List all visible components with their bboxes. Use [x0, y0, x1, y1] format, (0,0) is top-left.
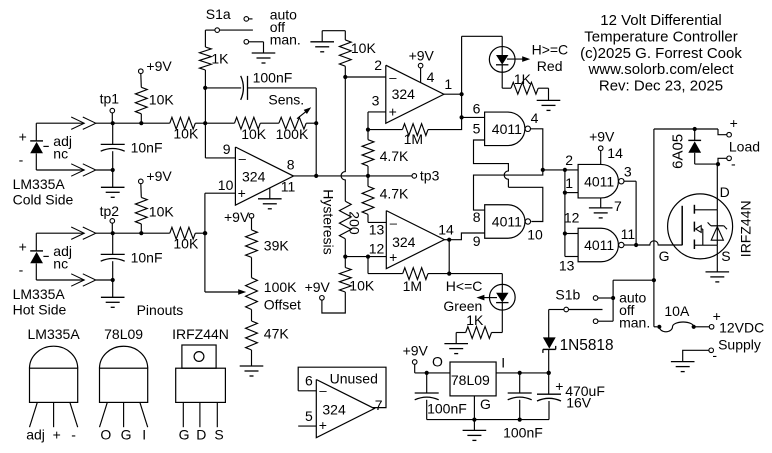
- resistor 10K (feedback): [205, 117, 279, 129]
- junction dot node A: [541, 168, 545, 172]
- chevrons hot bottom: [71, 274, 96, 286]
- svg-text:1M: 1M: [403, 278, 422, 294]
- label Sens.: [268, 92, 304, 108]
- svg-text:1K: 1K: [514, 71, 532, 87]
- svg-text:+9V: +9V: [224, 209, 250, 225]
- label O: [432, 353, 443, 369]
- junction dot out2: [447, 238, 451, 242]
- label 324 (U1d): [322, 401, 346, 417]
- pin label 10: [527, 226, 543, 242]
- label 6A05 vertical: [669, 134, 686, 169]
- svg-text:324: 324: [392, 234, 416, 250]
- op-amp U1d frame: [298, 367, 386, 407]
- svg-text:Load: Load: [729, 139, 760, 155]
- svg-text:7: 7: [375, 397, 383, 413]
- capacitor 100nF (input): [508, 373, 532, 420]
- label G (78L09): [480, 396, 491, 412]
- svg-text:39K: 39K: [264, 237, 290, 253]
- pin label 12: [369, 240, 385, 256]
- svg-text:10nF: 10nF: [131, 140, 163, 156]
- +9V terminal (U1b): [409, 47, 435, 82]
- wire feedback right column: [315, 88, 317, 176]
- label Hot Side: [13, 302, 67, 318]
- svg-text:+9V: +9V: [403, 342, 429, 358]
- pin label 13: [369, 221, 385, 237]
- svg-text:Unused: Unused: [330, 371, 378, 387]
- title line 4: [587, 61, 734, 78]
- label Green: [443, 298, 482, 314]
- wire right column: [653, 129, 655, 327]
- label off (S1a): [270, 19, 285, 35]
- svg-text:2: 2: [565, 152, 573, 168]
- svg-text:10K: 10K: [149, 92, 175, 108]
- svg-text:H<=C: H<=C: [446, 278, 483, 294]
- pin label 6: [473, 100, 481, 116]
- svg-text:8: 8: [473, 209, 481, 225]
- op-amp U2 (324 pins 13/12/14): [386, 211, 444, 269]
- title line 2: [584, 29, 737, 46]
- svg-text:Supply: Supply: [718, 337, 761, 353]
- svg-text:47K: 47K: [264, 325, 290, 341]
- wire drain column: [716, 164, 718, 245]
- ground (U3c pin7): [589, 198, 613, 218]
- +9V terminal (hysteresis): [305, 279, 331, 300]
- svg-text:tp3: tp3: [420, 167, 440, 183]
- plus mark U1a: [238, 185, 246, 201]
- svg-text:10: 10: [527, 226, 543, 242]
- label - (cold): [19, 151, 24, 167]
- label H<=C: [446, 278, 483, 294]
- pin label 3 (U3c): [624, 163, 632, 179]
- wire U1b output: [444, 93, 462, 95]
- svg-text:4.7K: 4.7K: [380, 185, 409, 201]
- svg-text:tp1: tp1: [100, 91, 120, 107]
- wire cold sensor top: [36, 122, 112, 124]
- svg-text:IRFZ44N: IRFZ44N: [172, 326, 229, 342]
- minus mark U1d: [319, 383, 327, 398]
- svg-text:1: 1: [444, 76, 452, 92]
- label 324 (U1b): [392, 86, 416, 102]
- svg-text:LM335A: LM335A: [13, 286, 66, 302]
- pin label 9 (U3b): [473, 233, 481, 249]
- svg-text:-: -: [712, 347, 717, 363]
- svg-text:200: 200: [347, 211, 363, 235]
- svg-text:man.: man.: [270, 31, 301, 47]
- wire top row: [654, 129, 727, 135]
- title line 5: [599, 77, 723, 94]
- pin label 13 (U3d): [559, 258, 575, 274]
- pin 5 stub: [298, 425, 316, 427]
- label 100nF (output): [427, 400, 467, 416]
- svg-text:-: -: [731, 155, 736, 171]
- label 1K (green): [466, 312, 484, 328]
- label man. (S1a): [270, 31, 301, 47]
- junction dot Sens right: [314, 121, 318, 125]
- svg-text:10K: 10K: [173, 236, 199, 252]
- svg-text:tp2: tp2: [100, 203, 120, 219]
- svg-text:I: I: [501, 355, 505, 371]
- capacitor 100nF (feedback): [205, 76, 316, 100]
- svg-text:+: +: [53, 426, 61, 442]
- svg-text:+: +: [389, 249, 397, 265]
- resistor 10K (hysteresis bottom): [322, 257, 351, 313]
- wire to green LED: [449, 274, 502, 285]
- label Supply: [718, 337, 761, 353]
- label 39K: [264, 237, 290, 253]
- label 4011 (U3b): [492, 214, 522, 230]
- label Unused: [330, 371, 378, 387]
- potentiometer 100K Sens.: [279, 107, 316, 129]
- NAND gate U3d (4011 pins 12/13/11): [578, 228, 624, 262]
- svg-text:–: –: [319, 383, 327, 398]
- LM335A sensor (hot side): [30, 233, 49, 280]
- +9V terminal (cold pullup): [139, 58, 173, 74]
- wire hysteresis column (hops output row): [341, 77, 345, 201]
- junction dot pin6 node: [460, 115, 464, 119]
- svg-text:10K: 10K: [241, 126, 267, 142]
- label Hysteresis vertical: [321, 189, 337, 254]
- wire to red LED: [462, 36, 503, 46]
- svg-text:G: G: [121, 426, 132, 442]
- op-amp U1a (324 pins 9/10/8): [235, 147, 293, 205]
- svg-text:+: +: [730, 115, 738, 131]
- svg-text:13: 13: [369, 221, 385, 237]
- arrow (green LED): [476, 295, 497, 301]
- wire pin 13: [368, 221, 386, 223]
- arrow (red LED): [507, 56, 530, 62]
- svg-text:+9V: +9V: [146, 168, 172, 184]
- svg-text:10K: 10K: [173, 126, 199, 142]
- package LM335A (TO-92): [30, 346, 78, 427]
- wire pin10/wiper column: [204, 193, 206, 292]
- pin label 7 (U1d): [375, 397, 383, 413]
- svg-text:100nF: 100nF: [253, 70, 293, 86]
- label 10K (hyst bottom): [349, 277, 375, 293]
- wire gate input column: [564, 170, 566, 257]
- label 1N5818: [560, 337, 614, 354]
- svg-text:+: +: [19, 128, 27, 144]
- svg-text:Sens.: Sens.: [268, 92, 304, 108]
- label tp3: [420, 167, 440, 183]
- svg-text:324: 324: [392, 86, 416, 102]
- wire U3c out column: [624, 181, 636, 245]
- ground (hot sensor): [101, 280, 125, 307]
- pin label 5: [473, 121, 481, 137]
- junction dots output row: [314, 174, 370, 178]
- pin 6 stub: [298, 390, 316, 392]
- svg-text:1M: 1M: [404, 131, 423, 147]
- junction dot out1: [460, 92, 464, 96]
- label Offset: [264, 297, 301, 313]
- svg-text:1N5818: 1N5818: [560, 337, 614, 354]
- svg-text:10K: 10K: [149, 204, 175, 220]
- resistor 1K (green LED): [456, 310, 502, 338]
- svg-text:100nF: 100nF: [427, 400, 467, 416]
- terminal supply -: [709, 347, 718, 363]
- svg-text:14: 14: [438, 221, 454, 237]
- label 78L09: [451, 372, 490, 388]
- svg-text:O: O: [100, 426, 111, 442]
- label 4.7K upper: [380, 148, 409, 164]
- label 12VDC: [719, 319, 764, 335]
- diode D3 6A05: [688, 129, 701, 164]
- LED D2 green: [489, 284, 515, 310]
- junction dot pin2: [343, 75, 347, 79]
- resistor 10K series (cold): [113, 117, 206, 129]
- +9V terminal (U3c): [589, 128, 615, 164]
- junction dots hot row: [111, 231, 208, 282]
- wire supply minus: [683, 350, 709, 361]
- label 10K (feedback): [241, 126, 267, 142]
- resistor 10K pullup (hot): [135, 184, 147, 233]
- testpoint tp2: [110, 219, 115, 234]
- svg-text:78L09: 78L09: [451, 372, 490, 388]
- ground (U1a pin 11): [258, 188, 282, 209]
- pin label 6 (U1d): [305, 372, 313, 388]
- svg-text:+9V: +9V: [589, 128, 615, 144]
- label H>=C: [532, 41, 569, 57]
- svg-text:16V: 16V: [566, 394, 592, 410]
- svg-text:LM335A: LM335A: [13, 176, 66, 192]
- label 200 vertical: [347, 211, 363, 235]
- ground (offset chain): [240, 366, 264, 376]
- svg-text:S: S: [721, 248, 730, 264]
- fuse 10A: [654, 322, 709, 332]
- svg-text:Pinouts: Pinouts: [137, 302, 184, 318]
- svg-text:100nF: 100nF: [503, 425, 543, 441]
- label 10K pullup (hot): [149, 204, 175, 220]
- svg-text:man.: man.: [619, 315, 650, 331]
- svg-text:+: +: [319, 417, 327, 433]
- svg-text:1K: 1K: [466, 312, 484, 328]
- label 10nF (cold): [131, 140, 163, 156]
- terminal Load -: [727, 155, 736, 171]
- wire hot sensor bottom: [36, 279, 112, 281]
- svg-text:12: 12: [564, 209, 580, 225]
- svg-text:adj: adj: [26, 426, 45, 442]
- label 100K (Sens pot): [276, 126, 309, 142]
- junction dots ground rail: [472, 371, 551, 422]
- pin label 1 (U3c): [565, 175, 573, 191]
- svg-text:IRFZ44N: IRFZ44N: [738, 200, 754, 257]
- label Red: [537, 58, 563, 74]
- svg-text:9: 9: [473, 233, 481, 249]
- label LM335A (hot): [13, 286, 66, 302]
- label 1M (U2): [403, 278, 422, 294]
- label adj (cold): [53, 133, 72, 149]
- svg-text:10: 10: [218, 177, 234, 193]
- chevrons hot top: [71, 227, 96, 239]
- svg-text:3: 3: [372, 93, 380, 109]
- svg-text:S1a: S1a: [206, 6, 231, 22]
- resistor 39K: [246, 218, 258, 278]
- minus mark U1b: [389, 70, 397, 85]
- svg-text:5: 5: [305, 408, 313, 424]
- label adj (hot): [53, 243, 72, 259]
- chevrons cold top: [71, 117, 96, 129]
- svg-text:nc: nc: [53, 256, 68, 272]
- label S1a: [206, 6, 231, 22]
- label IRFZ44N vertical: [738, 200, 754, 257]
- junction dot S1b column: [652, 278, 656, 282]
- plus mark U1d: [319, 417, 327, 433]
- svg-text:1: 1: [565, 175, 573, 191]
- svg-text:G: G: [480, 396, 491, 412]
- svg-text:6A05: 6A05: [669, 134, 686, 169]
- svg-text:G: G: [659, 248, 670, 264]
- pin label 7 (U3c): [614, 198, 622, 214]
- svg-text:11: 11: [281, 179, 296, 195]
- pin label 9: [223, 141, 231, 157]
- label auto (S1b): [619, 290, 646, 306]
- svg-text:7: 7: [614, 198, 622, 214]
- svg-text:LM335A: LM335A: [28, 326, 81, 342]
- svg-text:–: –: [390, 216, 398, 231]
- wire source column: [716, 245, 718, 272]
- junction dot gate node: [634, 243, 638, 247]
- svg-text:(c)2025 G. Forrest Cook: (c)2025 G. Forrest Cook: [580, 45, 742, 62]
- diode D4 1N5818: [543, 337, 556, 373]
- svg-text:+9V: +9V: [146, 58, 172, 74]
- op-amp U1b (324 pins 2/3/1): [386, 65, 444, 123]
- ground (78L09): [463, 420, 487, 441]
- svg-text:6: 6: [473, 100, 481, 116]
- ground (green LED): [444, 333, 468, 354]
- label LM335A (pinout): [28, 326, 81, 342]
- wire hot sensor top: [36, 232, 112, 234]
- pin label 11 (U3d): [621, 226, 636, 242]
- op-amp U1d (324 unused): [316, 380, 374, 438]
- label Pinouts: [137, 302, 184, 318]
- label tp2: [100, 203, 120, 219]
- svg-text:+: +: [19, 238, 27, 254]
- labels G D S (pinout): [179, 426, 224, 442]
- junction dot pin12 node: [343, 255, 347, 259]
- potentiometer 100K Offset: [205, 278, 258, 310]
- svg-text:10A: 10A: [664, 303, 690, 319]
- switch S1b: [549, 280, 613, 339]
- resistor 10K pullup (cold): [135, 74, 147, 124]
- wire pin 12 row: [345, 256, 386, 258]
- label + (hot): [19, 238, 27, 254]
- svg-text:324: 324: [242, 169, 266, 185]
- label 10K series (cold): [173, 126, 199, 142]
- wire pin 9: [205, 157, 235, 159]
- minus mark U1a: [239, 151, 247, 166]
- wire U1a output row: [293, 175, 412, 177]
- label S1b: [555, 286, 580, 302]
- terminal +12VDC: [709, 308, 720, 329]
- label 4011 (U3c): [584, 173, 614, 189]
- svg-text:Cold Side: Cold Side: [13, 192, 74, 208]
- svg-text:4011: 4011: [584, 237, 614, 253]
- svg-text:1K: 1K: [211, 51, 229, 67]
- pin label 11: [281, 179, 296, 195]
- wire load minus: [695, 158, 727, 164]
- pin label 5 (U1d): [305, 408, 313, 424]
- resistor 1K (red LED): [502, 72, 548, 94]
- svg-text:12: 12: [369, 240, 385, 256]
- +9V terminal (offset): [224, 209, 254, 225]
- label 1K: [211, 51, 229, 67]
- svg-text:4011: 4011: [492, 121, 522, 137]
- label 10nF (hot): [131, 250, 163, 266]
- svg-text:9: 9: [223, 141, 231, 157]
- svg-text:14: 14: [607, 145, 623, 161]
- capacitor 10nF (hot): [101, 233, 125, 280]
- junction dots rails: [425, 371, 551, 375]
- svg-text:www.solorb.com/elect: www.solorb.com/elect: [587, 61, 734, 78]
- svg-text:Hot Side: Hot Side: [13, 302, 67, 318]
- label nc (cold): [53, 146, 68, 162]
- wire out2 column: [448, 240, 450, 274]
- pin label 4 (U1b): [427, 69, 435, 85]
- label IRFZ44N (pinout): [172, 326, 229, 342]
- label 1M (U1b): [404, 131, 423, 147]
- switch S1a: [205, 17, 263, 44]
- wire cold sensor bottom: [36, 169, 112, 171]
- label auto (S1a): [270, 7, 297, 23]
- svg-text:10nF: 10nF: [131, 250, 163, 266]
- capacitor 100nF (output): [415, 373, 439, 420]
- label LM335A (cold): [13, 176, 66, 192]
- svg-text:S: S: [214, 426, 223, 442]
- pin label 14 (U3c): [607, 145, 623, 161]
- label 100K (offset): [264, 279, 297, 295]
- label 78L09 (pinout): [104, 326, 143, 342]
- svg-text:10K: 10K: [351, 40, 377, 56]
- capacitor 10nF (cold): [101, 123, 125, 170]
- resistor 47K: [246, 310, 258, 367]
- pin label 4: [531, 110, 539, 126]
- svg-text:Hysteresis: Hysteresis: [321, 189, 337, 254]
- wire ground rail: [427, 419, 549, 421]
- resistor 200 (hysteresis): [339, 201, 351, 239]
- label 324 (U1a): [242, 169, 266, 185]
- svg-text:13: 13: [559, 258, 575, 274]
- wire pin 6: [462, 116, 485, 118]
- NAND gate U3b (4011 pins 8/9/10): [485, 205, 531, 239]
- wire U3b out to pin5 (with hop): [474, 140, 543, 222]
- label off (S1b): [619, 302, 634, 318]
- svg-text:324: 324: [322, 401, 346, 417]
- junction dot 100nF tap: [203, 86, 207, 90]
- junction dot S1b auto: [611, 296, 615, 300]
- label G (mosfet): [659, 248, 670, 264]
- label 1K (red): [514, 71, 532, 87]
- wire gate row (with hop): [636, 241, 682, 245]
- label Load: [729, 139, 760, 155]
- resistor 4.7K upper: [362, 130, 374, 176]
- label nc (hot): [53, 256, 68, 272]
- ground (cold sensor): [101, 170, 125, 197]
- pin label 8: [473, 209, 481, 225]
- svg-text:D: D: [196, 426, 206, 442]
- wire G pin: [473, 396, 475, 420]
- svg-text:nc: nc: [53, 146, 68, 162]
- label tp1: [100, 91, 120, 107]
- wire U3a out to node A: [474, 129, 543, 210]
- regulator 78L09: [450, 362, 496, 396]
- svg-text:Temperature Controller: Temperature Controller: [584, 29, 737, 46]
- svg-text:–: –: [239, 151, 247, 166]
- svg-text:Offset: Offset: [264, 297, 301, 313]
- plus mark U2: [389, 249, 397, 265]
- label 4011 (U3d): [584, 237, 614, 253]
- svg-text:100K: 100K: [276, 126, 309, 142]
- svg-text:H>=C: H>=C: [532, 41, 569, 57]
- pin label 1: [444, 76, 452, 92]
